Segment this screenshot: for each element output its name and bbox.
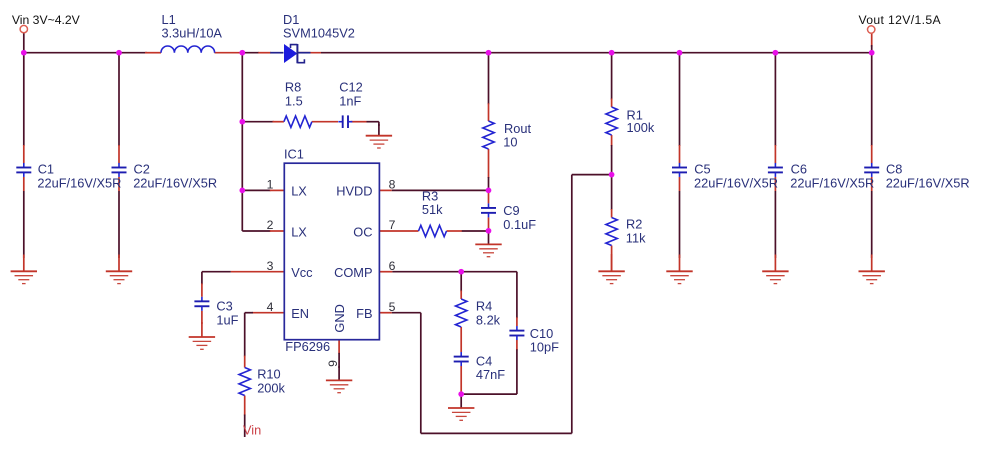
ground below C6 [762, 271, 788, 283]
svg-text:9: 9 [326, 360, 340, 367]
pin name LX 2 [291, 224, 307, 239]
svg-text:R2: R2 [626, 217, 642, 232]
label C4 value 47nF [476, 354, 505, 382]
wire HVDD pin8 row [379, 189, 488, 191]
svg-text:2: 2 [267, 218, 274, 232]
svg-text:100k: 100k [627, 120, 655, 135]
pin number 1 [267, 178, 274, 192]
wire R3 to C9 node [447, 230, 489, 232]
wire R8 row from LX column [242, 121, 284, 123]
wire IC pin9 GND stub [338, 340, 340, 368]
wire OC pin7 to R3 [379, 230, 418, 232]
node Vin 3V~4.2V label [12, 13, 81, 27]
svg-text:C3: C3 [216, 299, 232, 314]
wire ground stem below R2 [611, 254, 613, 271]
capacitor C3 symbol [194, 297, 209, 311]
svg-text:LX: LX [291, 224, 307, 239]
svg-text:COMP: COMP [334, 265, 372, 280]
capacitor C4 symbol [454, 352, 469, 366]
wire COMP pin6 row [379, 272, 517, 326]
wire FB pin5 feedback route [379, 175, 611, 434]
capacitor C8 symbol [864, 163, 879, 177]
svg-text:8: 8 [389, 178, 396, 192]
wire C12 to ground corner [351, 122, 379, 126]
svg-text:R10: R10 [257, 367, 280, 382]
svg-text:C9: C9 [503, 203, 519, 218]
node Vin power port label [243, 422, 261, 437]
inductor L1 [161, 46, 215, 53]
pin name EN [291, 306, 309, 321]
svg-text:10pF: 10pF [530, 340, 559, 355]
ground below C1 [11, 271, 37, 283]
resistor R4 symbol [456, 299, 467, 327]
wire LX branch column (bus to pin2) [242, 53, 284, 231]
label IC1 [284, 147, 304, 162]
wire ground stem below R4/C4 [460, 394, 462, 408]
node junction R3/C9/ground [486, 228, 492, 234]
label C12 value 1nF [339, 79, 362, 108]
wire ground stem below C2 [118, 255, 120, 272]
label Rout value 10 [503, 121, 531, 150]
svg-text:C12: C12 [339, 79, 362, 94]
ground below C5 [666, 271, 692, 283]
wire C1 column [23, 53, 25, 258]
wire L1 to D1 anode segment [215, 52, 284, 54]
wire LX pin1 [242, 189, 284, 191]
wire C10 bottom to R4/C4 node [461, 340, 517, 394]
capacitor C9 symbol [481, 203, 496, 217]
wire D1 cathode to Vout bus (12V rail) [297, 52, 871, 54]
pin number 4 [267, 300, 274, 314]
pin number 3 [267, 259, 274, 273]
svg-text:22uF/16V/X5R: 22uF/16V/X5R [37, 175, 121, 190]
capacitor C12 symbol (horizontal) [338, 115, 352, 128]
node junction R8 row [239, 119, 245, 125]
svg-text:3: 3 [267, 259, 274, 273]
svg-text:0.1uF: 0.1uF [503, 217, 536, 232]
node junction HVDD/Rout/C9 [486, 188, 492, 194]
svg-text:200k: 200k [257, 380, 285, 395]
terminal Vout port circle [868, 26, 875, 33]
resistor R3 symbol [419, 225, 447, 236]
label R3 value 51k [422, 189, 443, 217]
label R10 value 200k [257, 367, 285, 396]
wire ground stem below C1 [23, 255, 25, 272]
pin name Vcc [291, 265, 313, 280]
node Vout 12V/1.5A label [859, 13, 942, 27]
wire ground stem below C12 [378, 124, 380, 136]
svg-text:3.3uH/10A: 3.3uH/10A [162, 26, 223, 41]
pin name HVDD [336, 184, 372, 199]
wire EN pin4 to R10 [245, 313, 285, 368]
svg-text:OC: OC [353, 224, 372, 239]
resistor Rout symbol [483, 121, 494, 149]
pin number 5 [389, 300, 396, 314]
pin name LX 1 [291, 184, 307, 199]
wire ground stem below C3 [201, 322, 203, 337]
wire R1 bottom to divider node [611, 135, 613, 175]
wire ground stem below IC pin9 [338, 366, 340, 380]
svg-text:1: 1 [267, 178, 274, 192]
svg-text:4: 4 [267, 300, 274, 314]
node junction LX branch/bus [239, 50, 245, 56]
wire Rout bottom to HVDD node [488, 149, 490, 190]
svg-text:FP6296: FP6296 [285, 339, 330, 354]
pin number 7 [389, 218, 396, 232]
wire C9 leads [488, 190, 490, 230]
capacitor C5 symbol [672, 163, 687, 177]
wire R8 to C12 [312, 121, 338, 123]
label R4 value 8.2k [476, 299, 501, 328]
wire R2 bottom to ground [611, 246, 613, 272]
wire top bus left segment (Vin node to L1) [24, 52, 161, 54]
svg-text:FB: FB [356, 306, 372, 321]
svg-text:1nF: 1nF [339, 93, 361, 108]
svg-text:GND: GND [332, 304, 347, 332]
capacitor C10 symbol [509, 326, 524, 340]
svg-text:5: 5 [389, 300, 396, 314]
ground below C9 [475, 244, 501, 256]
wire ground stem below C9 [488, 231, 490, 245]
svg-text:R8: R8 [285, 79, 301, 94]
node junction C5/bus [677, 50, 683, 56]
capacitor C1 symbol [16, 163, 31, 177]
svg-text:22uF/16V/X5R: 22uF/16V/X5R [790, 175, 874, 190]
svg-text:LX: LX [291, 184, 307, 199]
node junction COMP/R4 [458, 269, 464, 275]
label FP6296 [285, 339, 330, 354]
label C5 value [694, 162, 778, 191]
wire ground stem below C6 [774, 255, 776, 272]
node junction Vin/C1 [21, 50, 27, 56]
wire C3 to ground [201, 311, 203, 324]
label D1 [283, 12, 355, 41]
node junction C2/bus [116, 50, 122, 56]
op-amp/IC U1 body FP6296 [284, 163, 379, 340]
resistor R8 symbol [284, 116, 312, 127]
node junction C6/bus [773, 50, 779, 56]
node junction R1/R2 feedback [609, 172, 615, 178]
pin name GND (rotated) [332, 304, 347, 332]
label C10 value 10pF [530, 326, 559, 355]
ground below R4/C4 [448, 408, 474, 420]
wire COMP node down to R4 [460, 272, 462, 299]
pin name OC [353, 224, 372, 239]
wire Vout terminal drop [871, 33, 873, 53]
svg-text:R4: R4 [476, 299, 492, 314]
svg-text:EN: EN [291, 306, 309, 321]
svg-text:IC1: IC1 [284, 147, 304, 162]
wire C4 to ground node [460, 366, 462, 394]
ground below C2 [106, 271, 132, 283]
svg-text:10: 10 [503, 135, 517, 150]
svg-text:SVM1045V2: SVM1045V2 [283, 26, 355, 41]
svg-text:Vin: Vin [243, 422, 261, 437]
label C3 value 1uF [216, 299, 238, 328]
label R8 value 1.5 [285, 79, 303, 108]
diode D1 (schottky) [284, 44, 311, 63]
label C9 value 0.1uF [503, 203, 536, 232]
svg-text:47nF: 47nF [476, 367, 505, 382]
ground below C8 [859, 271, 885, 283]
wire C6 column [774, 53, 776, 258]
resistor R10 symbol [239, 368, 250, 396]
node junction C8/Vout [869, 50, 875, 56]
label C2 value [133, 162, 217, 191]
svg-text:C10: C10 [530, 326, 553, 341]
label C6 value [790, 162, 874, 191]
capacitor C2 symbol [112, 163, 127, 177]
wire C5 column [679, 53, 681, 258]
label R1 value 100k [627, 108, 655, 135]
label R2 value 11k [626, 217, 646, 246]
ground below C3 [189, 337, 215, 349]
pin number 6 [389, 259, 396, 273]
svg-text:Vin 3V~4.2V: Vin 3V~4.2V [12, 13, 81, 27]
svg-text:Vout 12V/1.5A: Vout 12V/1.5A [859, 13, 942, 27]
svg-text:Vcc: Vcc [291, 265, 313, 280]
svg-text:8.2k: 8.2k [476, 313, 501, 328]
ground below C12 [366, 136, 392, 148]
svg-text:22uF/16V/X5R: 22uF/16V/X5R [694, 175, 778, 190]
svg-text:6: 6 [389, 259, 396, 273]
svg-text:11k: 11k [626, 230, 646, 245]
pin number 9 (rotated) [326, 360, 340, 367]
resistor R1 symbol [606, 107, 617, 135]
terminal Vin port circle [20, 25, 27, 32]
svg-text:22uF/16V/X5R: 22uF/16V/X5R [886, 175, 970, 190]
label L1 [162, 12, 223, 41]
pin number 2 [267, 218, 274, 232]
svg-text:1.5: 1.5 [285, 94, 303, 109]
wire ground stem below C8 [871, 255, 873, 272]
capacitor C6 symbol [768, 163, 783, 177]
node junction LX pin1 [239, 188, 245, 194]
pin name FB [356, 306, 372, 321]
svg-text:51k: 51k [422, 202, 443, 217]
wire divider node to R2 [611, 175, 613, 218]
ground below R2 [598, 271, 624, 283]
svg-text:22uF/16V/X5R: 22uF/16V/X5R [133, 175, 217, 190]
svg-text:1uF: 1uF [216, 312, 238, 327]
wire Rout column top [488, 53, 490, 121]
svg-text:7: 7 [389, 218, 396, 232]
wire ground stem below C5 [679, 255, 681, 272]
wire C2 column [118, 53, 120, 258]
node junction Rout/bus [486, 50, 492, 56]
svg-text:HVDD: HVDD [336, 184, 372, 199]
pin name COMP [334, 265, 372, 280]
label C1 value [37, 162, 121, 191]
wire R1 column top [611, 53, 613, 107]
wire C8 column [871, 53, 873, 258]
wire R4 to C4 [460, 327, 462, 352]
wire R10 to Vin power port [244, 396, 246, 438]
node junction R1/bus [609, 50, 615, 56]
wire Vcc pin3 to C3 [202, 272, 284, 297]
pin number 8 [389, 178, 396, 192]
resistor R2 symbol [606, 218, 617, 246]
ground below IC pin9 [326, 380, 352, 392]
label C8 value [886, 162, 970, 191]
node junction C4/C10/ground [458, 391, 464, 397]
wire Vin terminal drop [23, 33, 25, 53]
